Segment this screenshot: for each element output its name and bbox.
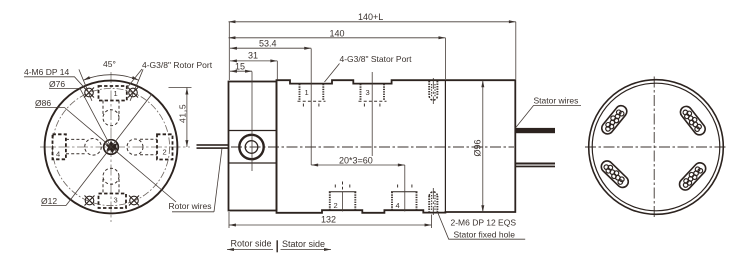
stator view horizontal centerline xyxy=(585,146,726,148)
bolt circle Ø76 (dash-dot) xyxy=(52,88,169,205)
dimension 31 xyxy=(230,51,277,81)
svg-text:Stator fixed hole: Stator fixed hole xyxy=(454,230,516,240)
leader rotor port label xyxy=(127,69,143,89)
port 4 centerline / 20*3 extension xyxy=(404,165,406,212)
shaft inner circle xyxy=(245,141,258,154)
45 degree radial extension line right xyxy=(130,69,143,100)
M6 screw hole top-right xyxy=(128,88,138,98)
svg-text:140: 140 xyxy=(330,28,345,38)
45 degree radial extension line left xyxy=(79,69,92,100)
rotor block band lines xyxy=(229,131,277,164)
svg-text:2: 2 xyxy=(163,148,167,157)
wire slot bottom-left xyxy=(599,159,631,190)
svg-text:4: 4 xyxy=(56,150,60,159)
stator body outline xyxy=(277,80,516,213)
svg-text:3: 3 xyxy=(366,88,370,97)
svg-text:4-G3/8" Rotor Port: 4-G3/8" Rotor Port xyxy=(142,60,213,70)
M6 screw hole bottom-left xyxy=(85,196,95,206)
rotor port 3 end circle xyxy=(103,168,119,184)
rotor wires leader to wires xyxy=(214,149,222,212)
port 1 section (top) xyxy=(298,84,326,109)
underline + leader for 4-M6 xyxy=(24,77,86,90)
leader stator wires xyxy=(516,106,581,128)
svg-text:132: 132 xyxy=(321,215,336,225)
svg-text:4-M6 DP 14: 4-M6 DP 14 xyxy=(24,67,69,77)
svg-text:41,5: 41,5 xyxy=(178,104,188,123)
svg-text:4: 4 xyxy=(396,201,400,210)
center hub filled star xyxy=(105,141,118,154)
section horizontal centerline xyxy=(231,146,514,148)
svg-text:Ø86: Ø86 xyxy=(35,98,51,108)
port 2 centerline xyxy=(342,192,344,212)
dimension 132 xyxy=(229,212,432,228)
stator side arrow xyxy=(281,249,332,251)
rotor port 1 slot lines xyxy=(103,101,119,116)
rotor face outer circle Ø86 xyxy=(45,81,178,214)
rotor view vertical centerline xyxy=(110,72,112,222)
underline Ø76 xyxy=(49,88,80,90)
svg-text:53.4: 53.4 xyxy=(259,39,277,49)
svg-text:Stator side: Stator side xyxy=(282,239,325,249)
41.5 dimension extension tick xyxy=(169,87,192,89)
stator face inner circle xyxy=(592,83,720,211)
dimension Ø96 xyxy=(473,80,483,212)
leader line Ø86 to rotor-wires (through center) xyxy=(65,108,177,203)
rotor port 3 slot lines xyxy=(103,179,119,194)
svg-text:4-G3/8" Stator Port: 4-G3/8" Stator Port xyxy=(340,54,413,64)
stator face outer circle xyxy=(589,80,724,215)
svg-text:20*3=60: 20*3=60 xyxy=(339,156,373,166)
svg-text:Rotor side: Rotor side xyxy=(231,239,272,249)
dimension 140+L xyxy=(229,12,516,79)
svg-text:15: 15 xyxy=(235,62,245,72)
svg-text:3: 3 xyxy=(114,196,118,205)
rotor wires label underline xyxy=(172,211,214,213)
45 degree dimension arc xyxy=(83,75,138,81)
svg-text:1: 1 xyxy=(305,88,309,97)
rotor port 4 end circle xyxy=(85,139,102,156)
leader line Ø12 through center xyxy=(66,94,152,206)
dimension 53.4 xyxy=(230,39,311,49)
underline + leader stator fixed hole xyxy=(437,211,525,240)
M6 stator hole bottom-right (stator fixed hole) xyxy=(429,188,437,215)
rotor block outline xyxy=(229,82,277,211)
port 4 section (bottom) xyxy=(391,185,418,212)
rotor port 4 square (left) xyxy=(53,134,66,159)
stator view vertical centerline xyxy=(653,77,655,219)
leader line Ø76 to center xyxy=(80,89,111,148)
wire slot bottom-right xyxy=(677,160,708,192)
rotor view horizontal centerline xyxy=(40,146,190,148)
wire slot top-left xyxy=(599,103,629,136)
rotor wire lower xyxy=(197,147,230,149)
body joint line xyxy=(444,80,446,212)
rotor side arrow xyxy=(227,249,273,251)
rotor port 4 slot lines xyxy=(66,139,85,153)
svg-text:31: 31 xyxy=(248,51,258,61)
rotor port 1 end circle xyxy=(103,110,119,126)
underline Ø12 xyxy=(41,205,66,207)
dimension 20*3=60 xyxy=(311,156,405,166)
M6 screw hole top-left xyxy=(84,88,94,98)
rotor port 2 end circle xyxy=(127,139,143,155)
rotor port 1 square (top) xyxy=(99,86,127,101)
center hub circle Ø12 xyxy=(104,140,119,155)
svg-text:140+L: 140+L xyxy=(358,12,383,22)
underline Ø86 xyxy=(35,106,65,108)
port 2 section (bottom) xyxy=(329,182,357,212)
stator wire top (thick) xyxy=(516,128,555,133)
port 3 section (top) xyxy=(359,84,387,109)
dimension stack left extension line xyxy=(228,22,230,80)
svg-text:Stator wires: Stator wires xyxy=(534,96,579,106)
port 3 centerline xyxy=(371,72,373,156)
svg-text:2: 2 xyxy=(334,201,338,210)
svg-text:2-M6 DP 12 EQS: 2-M6 DP 12 EQS xyxy=(451,218,517,228)
dimension 140 xyxy=(229,28,446,79)
dimension 15 xyxy=(230,62,252,72)
svg-text:1: 1 xyxy=(114,89,118,98)
shaft outer circle xyxy=(239,135,263,159)
shaft vertical centerline xyxy=(251,72,253,172)
svg-text:Rotor wires: Rotor wires xyxy=(169,201,212,211)
rotor wire upper xyxy=(197,144,230,146)
leader stator port label xyxy=(325,64,340,83)
M6 stator hole top-right xyxy=(429,78,437,104)
svg-text:45°: 45° xyxy=(103,59,116,69)
wire slot top-right xyxy=(678,104,707,137)
svg-text:Ø96: Ø96 xyxy=(473,139,483,156)
M6 screw hole bottom-right xyxy=(129,196,139,206)
separator bar xyxy=(276,240,278,252)
stator wire bottom (double) xyxy=(516,163,555,165)
port 1 centerline / 53.4 extension xyxy=(310,49,312,166)
rotor port 3 square (bottom) xyxy=(99,194,127,209)
rotor port 2 slot lines xyxy=(140,139,157,154)
rotor port 2 square (right) xyxy=(157,134,173,159)
svg-text:Ø76: Ø76 xyxy=(49,79,65,89)
svg-text:Ø12: Ø12 xyxy=(41,196,57,206)
41.5 dimension line xyxy=(186,88,188,148)
